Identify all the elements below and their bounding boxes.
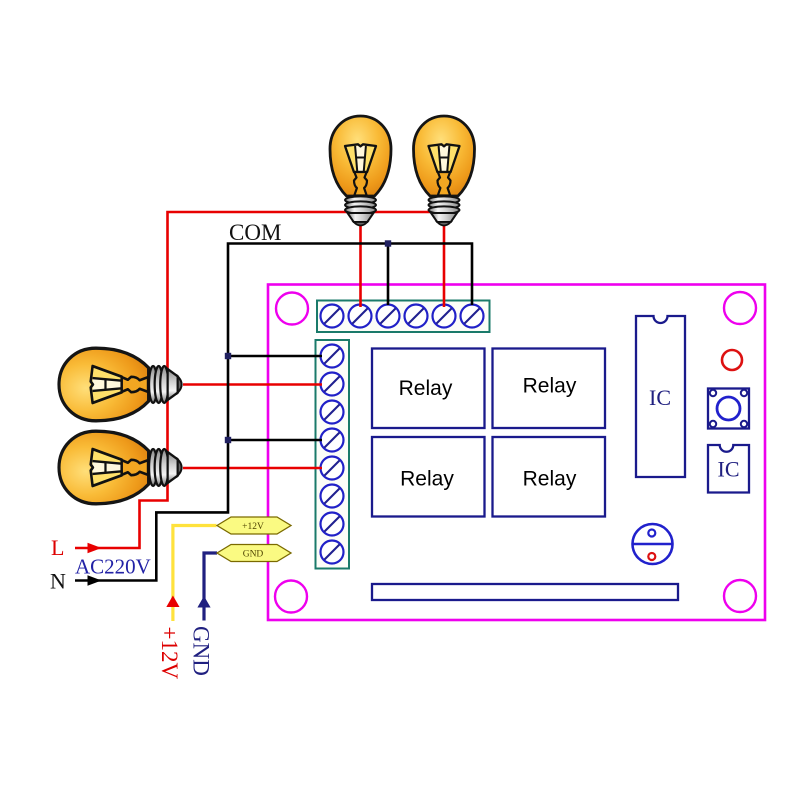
svg-text:+12V: +12V	[242, 522, 264, 532]
screw terminal TB2-5	[321, 457, 344, 480]
screw terminal TB2-1	[321, 345, 344, 368]
relay K4	[493, 437, 606, 517]
lamp B4	[59, 431, 182, 504]
svg-text:GND: GND	[243, 550, 264, 560]
svg-text:COM: COM	[229, 220, 281, 245]
wire: lamp B1 to TB1-2	[359, 224, 362, 307]
terminal block TB2 (left, 8 screws)	[316, 340, 350, 569]
arrow +12V (red, up)	[166, 596, 179, 608]
arrow GND (navy, up)	[197, 596, 210, 608]
wire: lamp B4 to TB2-5	[183, 467, 322, 470]
svg-text:N: N	[50, 569, 66, 594]
svg-text:IC: IC	[649, 385, 671, 410]
relay K2	[493, 349, 606, 429]
relay K1	[372, 349, 485, 429]
IC U2 (small, with notch)	[708, 445, 749, 493]
screw terminal TB1-5	[433, 305, 456, 328]
wire: GND (navy)	[204, 553, 217, 621]
screw terminal TB2-6	[321, 485, 344, 508]
arrow L (red)	[88, 543, 102, 553]
PCB board outline	[268, 285, 765, 621]
wire: COM bus (black)	[75, 244, 472, 581]
screw terminal TB2-8	[321, 541, 344, 564]
wire: COM to TB1-3	[387, 244, 390, 306]
lamp B2	[414, 116, 475, 226]
wire: +12V (yellow)	[173, 526, 217, 622]
screw terminal TB1-3	[377, 305, 400, 328]
svg-text:Relay: Relay	[523, 468, 577, 491]
junction at COM/TB1-3	[385, 240, 391, 246]
screw terminal TB1-1	[321, 305, 344, 328]
svg-text:Relay: Relay	[523, 375, 577, 398]
push button SW1	[708, 389, 749, 429]
svg-text:GND: GND	[189, 626, 214, 676]
buzzer BZ1	[633, 524, 673, 564]
LED D1 (red circle)	[722, 350, 742, 370]
wire: N bus to TB2-1	[228, 355, 322, 358]
wire: lamp B2 to TB1-5	[443, 224, 446, 307]
screw terminal TB2-7	[321, 513, 344, 536]
wire: red live bus top	[75, 212, 455, 548]
svg-text:AC220V: AC220V	[75, 555, 151, 579]
screw terminal TB2-4	[321, 429, 344, 452]
svg-text:Relay: Relay	[399, 377, 453, 400]
net tag GND	[217, 545, 291, 562]
svg-text:IC: IC	[718, 457, 740, 482]
mounting hole bottom-left	[275, 581, 307, 613]
junction at N/TB2-1	[225, 353, 231, 359]
wire: lamp B3 to TB2-2	[183, 383, 322, 386]
svg-text:+12V: +12V	[157, 627, 182, 680]
screw terminal TB2-2	[321, 373, 344, 396]
relay K3	[372, 437, 485, 517]
wire: N bus to TB2-4	[228, 439, 322, 442]
screw terminal TB1-2	[349, 305, 372, 328]
svg-text:Relay: Relay	[400, 468, 454, 491]
lamp B3	[59, 348, 182, 421]
screw terminal TB2-3	[321, 401, 344, 424]
mounting hole bottom-right	[724, 580, 756, 612]
lamp B1	[330, 116, 391, 226]
mounting hole top-left	[276, 293, 308, 325]
screw terminal TB1-6	[461, 305, 484, 328]
connector slot J1	[372, 584, 678, 600]
junction at N/TB2-4	[225, 437, 231, 443]
IC U1 (DIP with notch)	[636, 316, 685, 477]
arrow N (black)	[88, 575, 102, 585]
svg-text:L: L	[51, 535, 64, 560]
screw terminal TB1-4	[405, 305, 428, 328]
terminal block TB1 (top, 6 screws)	[317, 301, 490, 333]
mounting hole top-right	[724, 292, 756, 324]
net tag +12V	[217, 517, 291, 534]
